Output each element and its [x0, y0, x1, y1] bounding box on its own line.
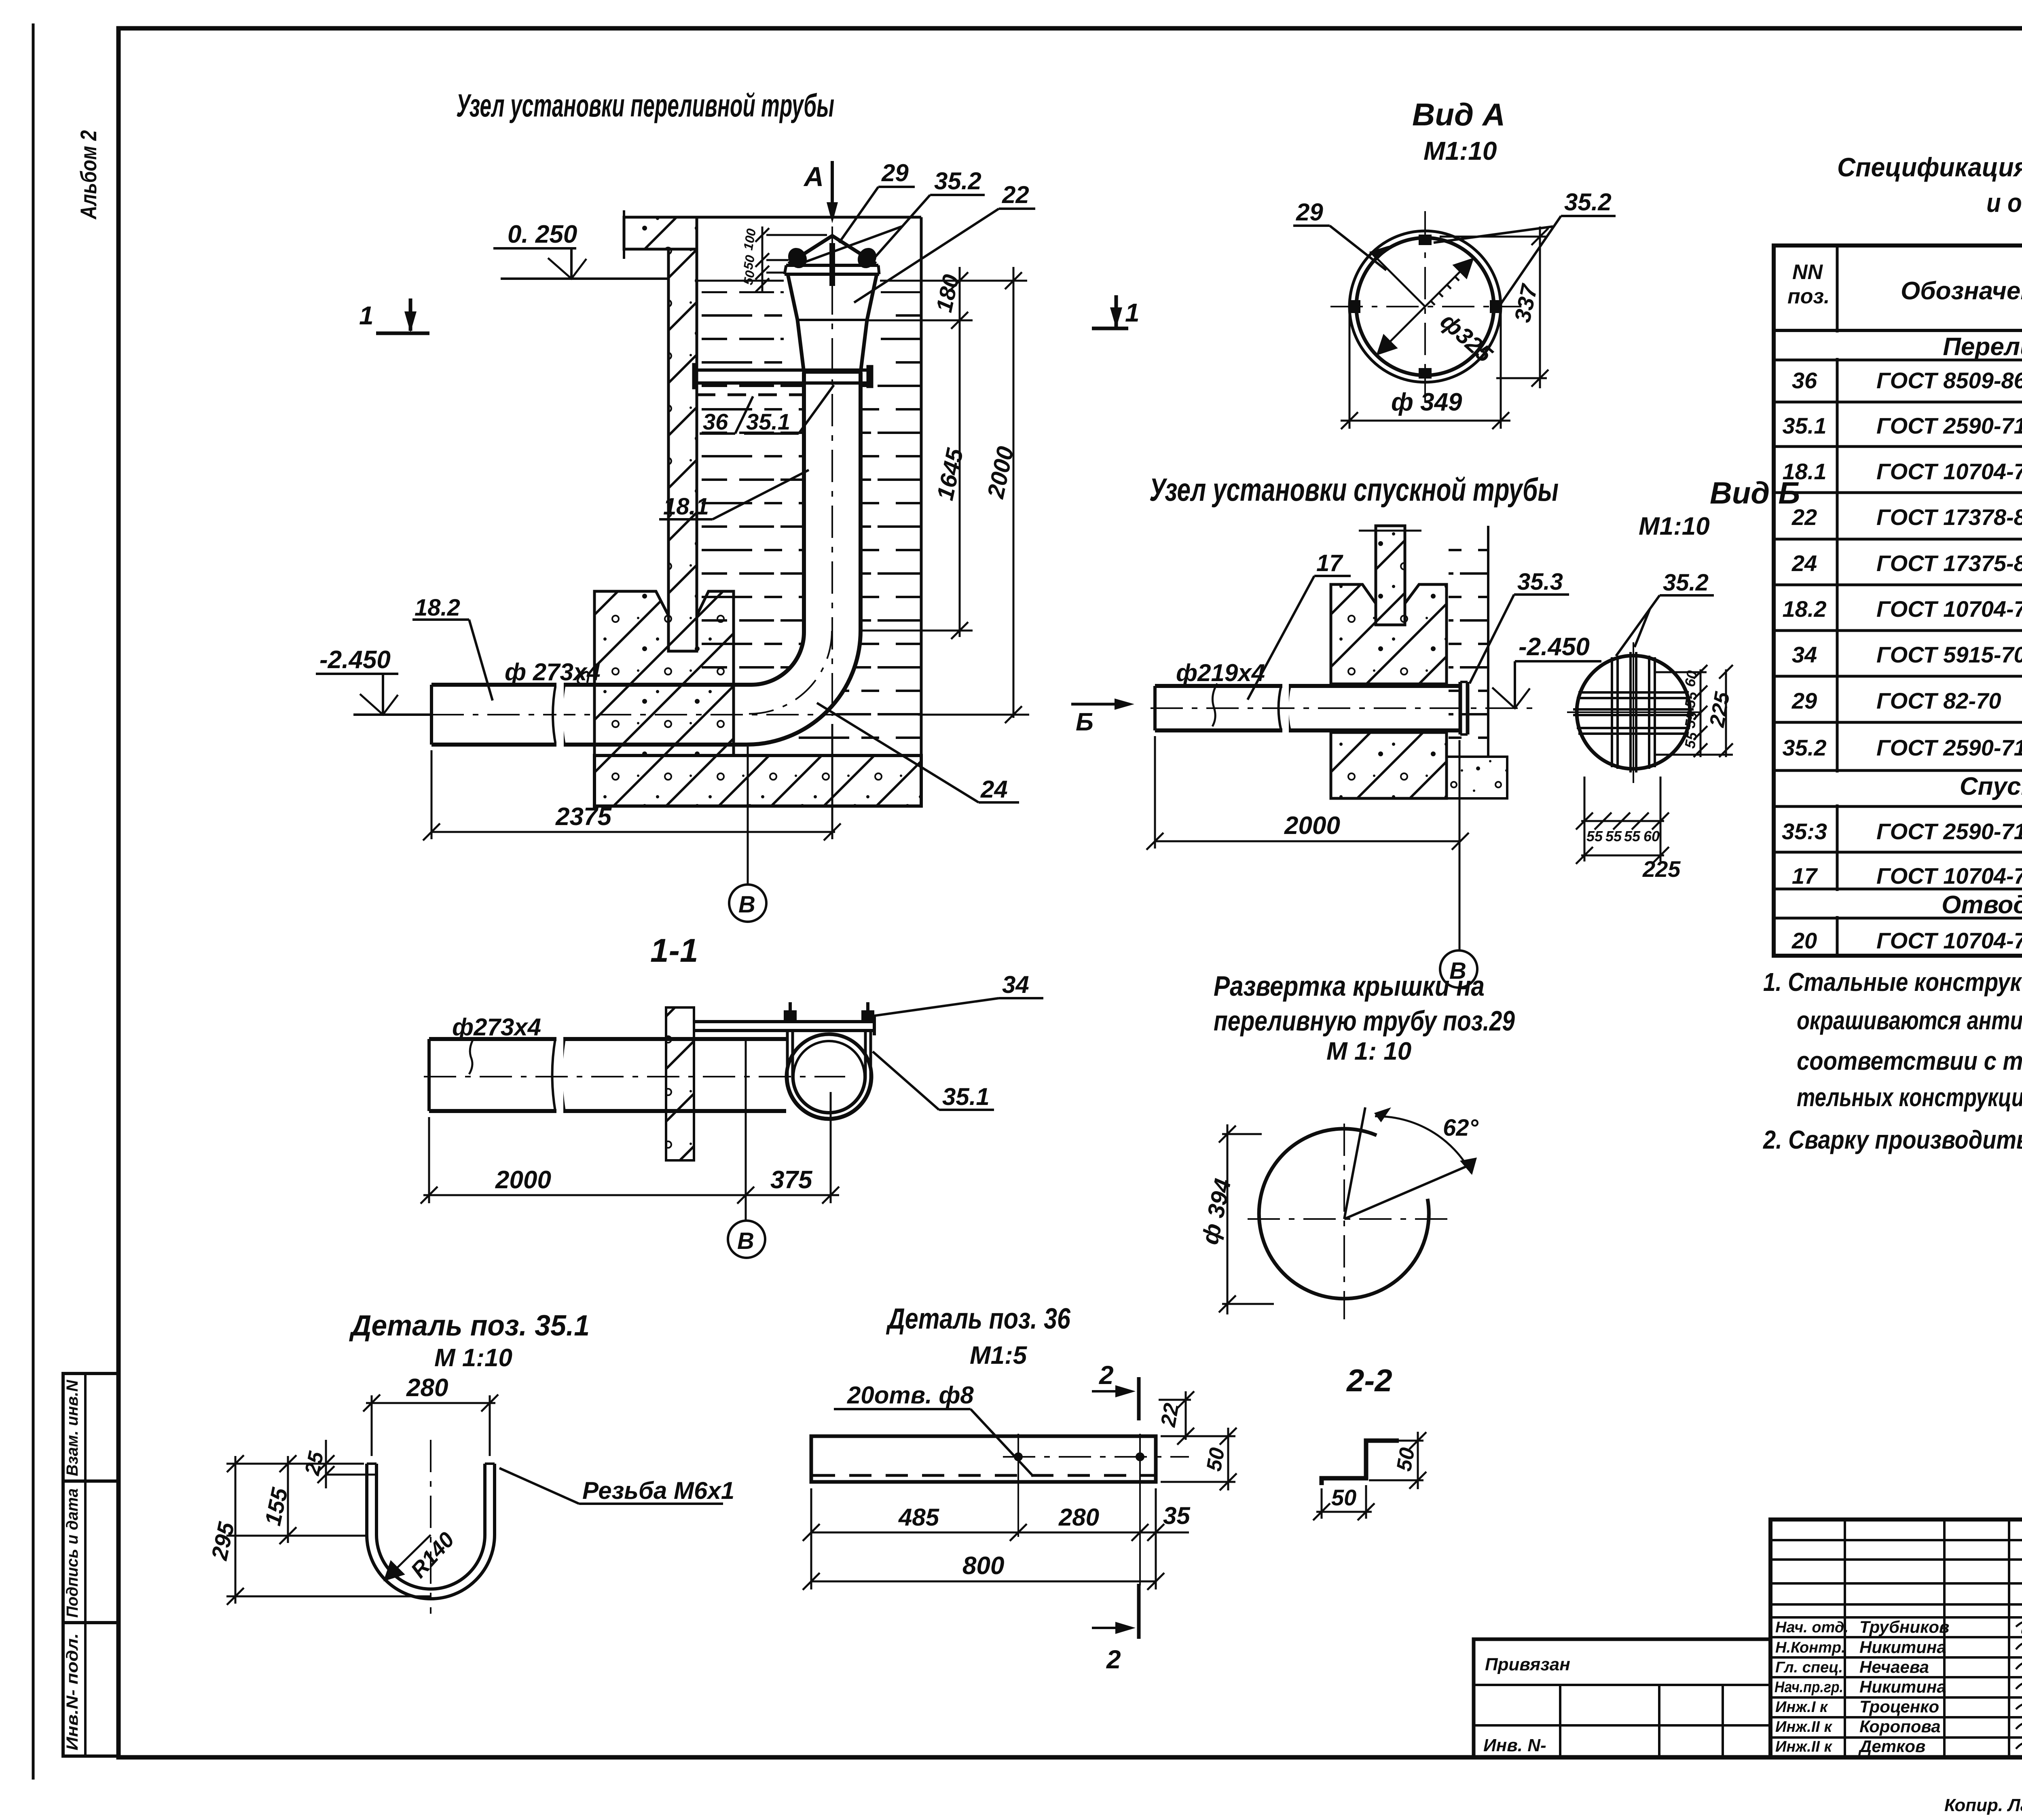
- ring circles ф349/ф325: [1349, 231, 1501, 382]
- signature rows texts: [1775, 1619, 1849, 1755]
- dims 485 / 280 / 35: [803, 1488, 1189, 1589]
- svg-text:-2.450: -2.450: [1519, 633, 1590, 661]
- label 18.1: [659, 470, 809, 520]
- bottom dim 2375: [423, 724, 841, 840]
- foundation slab hatched: [594, 756, 921, 806]
- label 35.2: [1434, 188, 1616, 306]
- diameter arrow ф325: [1378, 259, 1472, 354]
- svg-text:Троценко: Троценко: [1859, 1697, 1939, 1716]
- pipe centerline: [431, 714, 918, 715]
- svg-text:35.1: 35.1: [746, 409, 790, 434]
- pipe centerline: [1151, 707, 1537, 709]
- svg-text:24: 24: [1791, 550, 1817, 576]
- dims 2000 / 375: [421, 1039, 839, 1221]
- table data rows: [1782, 368, 2022, 953]
- basin right section boundary: [920, 217, 923, 758]
- svg-text:тельных конструкций от корр: тельных конструкций от коррозий.": [1797, 1083, 2022, 1112]
- svg-text:1: 1: [359, 301, 374, 330]
- svg-text:2000: 2000: [495, 1166, 551, 1194]
- svg-text:55: 55: [1681, 690, 1701, 709]
- svg-text:М1:5: М1:5: [970, 1342, 1028, 1369]
- water region dashes (basin): [702, 291, 920, 752]
- svg-text:переливную трубу поз.29: переливную трубу поз.29: [1214, 1005, 1515, 1037]
- cap body white mask: [784, 233, 881, 374]
- cap lugs (круг 35.2): [785, 244, 810, 271]
- svg-text:50: 50: [740, 269, 757, 286]
- svg-text:17: 17: [1316, 550, 1343, 576]
- svg-text:Переливная труба: Переливная труба: [1943, 333, 2022, 361]
- svg-text:Узел установки спускной тру: Узел установки спускной трубы: [1149, 472, 1559, 508]
- U-clamp detail: [367, 1464, 495, 1599]
- svg-text:Отводящая труба: Отводящая труба: [1942, 891, 2022, 919]
- svg-text:55: 55: [1605, 828, 1622, 844]
- water level line in basin with extensions to dims: [697, 280, 784, 282]
- svg-text:35.1: 35.1: [942, 1083, 990, 1110]
- svg-text:ГОСТ 17375-83: ГОСТ 17375-83: [1876, 550, 2022, 576]
- svg-text:22: 22: [1157, 1401, 1184, 1429]
- side stamp box: Подпись и дата: [63, 1481, 118, 1623]
- section line A with arrow: [803, 161, 838, 716]
- label 35.3: [1470, 569, 1569, 684]
- svg-text:ГОСТ 82-70: ГОСТ 82-70: [1876, 688, 2001, 713]
- svg-text:ГОСТ 2590-71: ГОСТ 2590-71: [1876, 413, 2022, 438]
- привязан block: [1474, 1639, 1770, 1757]
- svg-text:окрашиваются антикоррозийным: окрашиваются антикоррозийным покрытием в…: [1797, 1006, 2022, 1035]
- dim 337 right: [1440, 226, 1548, 388]
- svg-text:ф219х4: ф219х4: [1176, 659, 1265, 686]
- dim chain right 60/55/55/55 + 225: [1655, 665, 1733, 757]
- grate bars vertical: [1612, 652, 1655, 772]
- svg-text:Нач.пр.гр.: Нач.пр.гр.: [1775, 1679, 1843, 1696]
- svg-text:29: 29: [881, 159, 909, 186]
- svg-text:Гл. спец.: Гл. спец.: [1775, 1659, 1843, 1676]
- svg-text:-2.450: -2.450: [319, 646, 391, 674]
- svg-text:22: 22: [1002, 181, 1029, 208]
- svg-text:ГОСТ 10704-76: ГОСТ 10704-76: [1876, 596, 2022, 622]
- svg-text:Детков: Детков: [1858, 1737, 1925, 1756]
- dim 50 horizontal: [1313, 1485, 1375, 1520]
- svg-text:ГОСТ 5915-70: ГОСТ 5915-70: [1876, 642, 2022, 667]
- svg-text:соответствии с требованиями: соответствии с требованиями СНиП 2.03.11…: [1797, 1046, 2022, 1075]
- svg-text:35.2: 35.2: [1564, 188, 1612, 216]
- top edge line to right boundary: [697, 216, 921, 219]
- dim 800: [803, 1573, 1164, 1590]
- svg-text:20отв. ф8: 20отв. ф8: [847, 1382, 974, 1409]
- dim ф394: [1219, 1124, 1274, 1314]
- svg-text:Копир. Лаврухина: Копир. Лаврухина: [1944, 1795, 2022, 1815]
- side stamp box: Взам. инв. N: [63, 1373, 118, 1481]
- cover development circle with cut sector: [1259, 1129, 1429, 1299]
- horizontal pipe 18.2: [431, 685, 751, 745]
- svg-text:Деталь поз. 35.1: Деталь поз. 35.1: [349, 1310, 590, 1342]
- svg-text:35:3: 35:3: [1782, 819, 1827, 844]
- svg-text:18.2: 18.2: [415, 595, 460, 621]
- svg-text:280: 280: [406, 1374, 448, 1402]
- bar end spikes: [1567, 642, 1700, 783]
- svg-text:35.3: 35.3: [1517, 569, 1563, 595]
- label 35.2 with leaders: [805, 167, 985, 262]
- level mark -2.450: [1492, 661, 1601, 708]
- svg-text:2-2: 2-2: [1346, 1363, 1392, 1398]
- svg-text:Узел установки переливной т: Узел установки переливной трубы: [456, 87, 834, 123]
- pipe section circle: [787, 1034, 871, 1119]
- svg-text:2. Сварку производить эл: 2. Сварку производить электродом типа Э-…: [1763, 1125, 2022, 1154]
- dim 50 vertical: [1369, 1432, 1426, 1489]
- drain pipe 17: [1155, 686, 1459, 730]
- label 24 with leader: [817, 703, 1019, 803]
- column top cut mark: [1359, 530, 1421, 532]
- svg-text:Деталь поз. 36: Деталь поз. 36: [886, 1303, 1071, 1335]
- svg-text:ф 349: ф 349: [1391, 388, 1462, 416]
- svg-text:0. 250: 0. 250: [508, 220, 577, 248]
- outer trim line left: [32, 23, 35, 1780]
- svg-text:60: 60: [1643, 828, 1660, 844]
- cap hat (крышка 29): [785, 236, 879, 274]
- svg-text:34: 34: [1002, 971, 1029, 998]
- svg-text:1: 1: [1125, 298, 1140, 327]
- angle arc 62 with arrows: [1375, 1116, 1471, 1173]
- label 29: [1293, 199, 1386, 270]
- dim chain bottom 55/55/55/60 + 225: [1576, 777, 1669, 864]
- pipe body white mask: [431, 279, 861, 745]
- grate bars horizontal: [1573, 692, 1694, 734]
- svg-text:18.2: 18.2: [1783, 596, 1827, 622]
- pipe centerline: [424, 1076, 845, 1077]
- label Резьба М6х1: [499, 1468, 734, 1504]
- centerline vertical: [430, 1440, 431, 1614]
- crosshair centerlines: [1248, 1124, 1450, 1319]
- section marker 1 (left): [359, 298, 429, 333]
- dim 2000: [1146, 736, 1469, 950]
- svg-text:ГОСТ 17378-83: ГОСТ 17378-83: [1876, 504, 2022, 530]
- spec table header texts: [1787, 260, 2022, 308]
- side stamp box: Инв. N подл.: [63, 1623, 118, 1756]
- svg-text:50: 50: [740, 254, 757, 271]
- svg-text:А: А: [803, 161, 824, 192]
- top slab hatched: [624, 210, 697, 259]
- svg-text:Спускная труба: Спускная труба: [1960, 772, 2022, 800]
- svg-text:ГОСТ 2590-71: ГОСТ 2590-71: [1876, 735, 2022, 760]
- svg-text:50: 50: [1202, 1446, 1229, 1473]
- svg-text:Инж.II к: Инж.II к: [1775, 1738, 1832, 1755]
- svg-text:55: 55: [1586, 828, 1603, 844]
- brace strip 36 with bolts 35.1: [692, 363, 873, 395]
- svg-text:34: 34: [1792, 642, 1817, 667]
- view marker В circle: [728, 1221, 765, 1258]
- level mark 0.250: [493, 248, 668, 279]
- svg-text:35.2: 35.2: [1783, 735, 1827, 760]
- svg-text:280: 280: [1058, 1504, 1099, 1531]
- svg-text:Привязан: Привязан: [1485, 1655, 1570, 1674]
- svg-text:1-1: 1-1: [650, 932, 698, 969]
- svg-text:ГОСТ 10704-76: ГОСТ 10704-76: [1876, 863, 2022, 889]
- strip plate: [811, 1436, 1156, 1482]
- svg-text:Нечаева: Нечаева: [1859, 1657, 1929, 1676]
- svg-text:18.1: 18.1: [663, 493, 709, 520]
- svg-text:Спецификация материалов на пе: Спецификация материалов на переливную, с…: [1837, 152, 2022, 182]
- svg-text:NN: NN: [1792, 260, 1823, 284]
- reducer cone (переход 22): [788, 274, 877, 372]
- view marker Б arrow: [1071, 698, 1134, 736]
- svg-text:1. Стальные конструкции во: 1. Стальные конструкции водопроводного о…: [1763, 967, 2022, 997]
- svg-text:Нач. отд.: Нач. отд.: [1775, 1619, 1849, 1636]
- svg-text:2000: 2000: [1284, 812, 1340, 840]
- top strip (полоса 29): [694, 1017, 874, 1035]
- strip centerline: [1003, 1456, 1189, 1458]
- svg-text:29: 29: [1791, 688, 1817, 713]
- vertical pipe 18.1: [804, 372, 861, 632]
- section header row masks: [1776, 332, 2022, 916]
- dim ф349 bottom: [1341, 311, 1510, 429]
- level mark -2.450: [316, 674, 431, 715]
- svg-text:Никитина: Никитина: [1859, 1638, 1946, 1657]
- svg-text:2: 2: [1099, 1361, 1114, 1390]
- svg-text:Трубников: Трубников: [1859, 1617, 1949, 1636]
- water dashes right of wall: [1449, 534, 1487, 752]
- section marker 2 top: [1092, 1361, 1139, 1420]
- svg-text:Подпись и дата: Подпись и дата: [63, 1488, 81, 1618]
- svg-text:Инв. N-: Инв. N-: [1483, 1735, 1546, 1755]
- svg-text:ГОСТ 10704-76: ГОСТ 10704-76: [1876, 928, 2022, 953]
- gusset tabs 35.2: [1350, 235, 1500, 379]
- svg-text:Обозначение: Обозначение: [1901, 277, 2022, 305]
- svg-text:В: В: [738, 891, 755, 918]
- label 22 with leader: [854, 181, 1035, 303]
- svg-text:17: 17: [1792, 863, 1818, 889]
- grate circle: [1577, 656, 1690, 769]
- svg-text:485: 485: [898, 1504, 940, 1531]
- central stud with nut 34: [829, 243, 835, 286]
- label 18.2: [412, 595, 493, 700]
- wall block above pipe hatched: [1331, 584, 1447, 684]
- right dim 2000: [918, 267, 1029, 723]
- svg-text:Вид А: Вид А: [1412, 97, 1505, 132]
- dim 280 top: [363, 1395, 498, 1456]
- label ф219x4: [1176, 659, 1265, 726]
- svg-text:35: 35: [1163, 1502, 1191, 1529]
- svg-text:Инж.II к: Инж.II к: [1775, 1718, 1832, 1735]
- view A centerlines: [1330, 211, 1521, 403]
- z angle shape: [1322, 1441, 1399, 1485]
- svg-text:ГОСТ 8509-86: ГОСТ 8509-86: [1876, 368, 2022, 393]
- label 35.2: [1616, 569, 1714, 656]
- radius arrow upper-left: [1371, 247, 1425, 307]
- wall anchor block hatched: [594, 591, 734, 756]
- svg-text:поз.: поз.: [1787, 285, 1830, 308]
- side stamp rotated labels: [63, 1380, 81, 1750]
- section marker 2 bottom: [1092, 1584, 1139, 1674]
- svg-text:М 1: 10: М 1: 10: [1326, 1037, 1411, 1065]
- section marker 1 (right): [1092, 295, 1140, 328]
- svg-text:ГОСТ 10704-76: ГОСТ 10704-76: [1876, 459, 2022, 484]
- right foundation dotted: [1447, 757, 1507, 798]
- title block grid: [1770, 1519, 2022, 1757]
- svg-text:50: 50: [1392, 1446, 1419, 1473]
- white gap of pipe break: [556, 683, 564, 747]
- signatures squiggles: [2016, 1619, 2022, 1749]
- svg-text:225: 225: [1642, 856, 1681, 882]
- svg-text:В: В: [737, 1228, 754, 1254]
- holes 20отв ф8: [1014, 1434, 1144, 1585]
- upper wall column hatched: [1376, 526, 1405, 625]
- basin boundary line: [1487, 526, 1489, 757]
- label ф273x4: [505, 658, 601, 686]
- dims 295 / 155 / 25 left: [226, 1440, 431, 1605]
- pipe ф273x4 horizontal: [429, 1039, 786, 1111]
- svg-text:М1:10: М1:10: [1639, 512, 1710, 540]
- svg-text:2: 2: [1106, 1645, 1121, 1674]
- svg-text:2375: 2375: [555, 803, 612, 831]
- svg-text:Вид Б: Вид Б: [1710, 476, 1800, 510]
- svg-text:и отводящую трубы: и отводящую трубы: [1986, 188, 2022, 218]
- labels 36 and 35.1: [700, 385, 834, 434]
- svg-text:Никитина: Никитина: [1859, 1677, 1946, 1696]
- pipe end flange 35.3: [1460, 682, 1468, 734]
- svg-text:29: 29: [1296, 199, 1323, 226]
- label ф273x4: [452, 1014, 541, 1074]
- svg-text:Альбом 2: Альбом 2: [76, 130, 101, 220]
- svg-text:62°: 62°: [1443, 1115, 1479, 1141]
- sector radius lines: [1344, 1107, 1472, 1219]
- wall strip hatched: [666, 1007, 694, 1160]
- dim 50 right: [1161, 1428, 1237, 1490]
- view marker В (bottom of elbow): [729, 747, 766, 922]
- svg-text:50: 50: [1331, 1485, 1356, 1510]
- elbow 24: [747, 631, 861, 745]
- label 29 with leader: [839, 159, 915, 243]
- svg-text:35.1: 35.1: [1783, 413, 1827, 438]
- svg-text:36: 36: [703, 409, 728, 434]
- svg-text:35.2: 35.2: [934, 167, 981, 195]
- svg-text:М1:10: М1:10: [1423, 136, 1497, 165]
- svg-text:35.2: 35.2: [1663, 569, 1709, 596]
- svg-text:55: 55: [1681, 710, 1701, 730]
- label 34: [873, 971, 1043, 1016]
- svg-text:Н.Контр.: Н.Контр.: [1775, 1639, 1846, 1656]
- svg-text:Взам. инв.N: Взам. инв.N: [63, 1380, 81, 1476]
- svg-text:55: 55: [1624, 828, 1641, 844]
- svg-text:55: 55: [1681, 730, 1701, 750]
- R140 radius arrow: [385, 1535, 431, 1580]
- section header rows: [1942, 333, 2022, 919]
- svg-text:24: 24: [980, 776, 1008, 803]
- svg-text:800: 800: [962, 1552, 1004, 1580]
- U-clamp 35.1: [787, 1031, 871, 1118]
- svg-text:Б: Б: [1076, 708, 1093, 736]
- svg-text:20: 20: [1791, 928, 1817, 953]
- svg-text:ф273х4: ф273х4: [452, 1014, 541, 1041]
- svg-text:Резьба М6х1: Резьба М6х1: [582, 1477, 734, 1504]
- svg-text:Инж.I к: Инж.I к: [1775, 1699, 1828, 1716]
- spec table grid: [1774, 28, 2022, 956]
- 2-2 z-angle section: [1313, 1363, 1426, 1520]
- label 35.1: [873, 1052, 994, 1110]
- svg-text:ГОСТ 2590-71: ГОСТ 2590-71: [1876, 819, 2022, 844]
- svg-text:Инв.N- подл.: Инв.N- подл.: [63, 1633, 81, 1750]
- svg-text:375: 375: [770, 1166, 813, 1194]
- view marker В circle: [1440, 950, 1477, 988]
- label 20отв. ф8: [834, 1382, 1033, 1476]
- wall block below pipe hatched: [1331, 732, 1447, 798]
- dim 22 right: [1159, 1391, 1194, 1445]
- basin wall hatched: [668, 249, 697, 651]
- svg-text:М 1:10: М 1:10: [434, 1344, 512, 1372]
- svg-text:Развертка крышки на: Развертка крышки на: [1214, 970, 1485, 1002]
- svg-text:Коропова: Коропова: [1859, 1717, 1941, 1736]
- clamp nuts 34: [784, 1002, 874, 1022]
- svg-text:60: 60: [1681, 669, 1701, 688]
- right dim chain 180 / 1645: [861, 267, 973, 639]
- dim chain 100/50/50 left of cap: [755, 226, 827, 292]
- label 17: [1248, 550, 1351, 700]
- svg-text:36: 36: [1792, 368, 1817, 393]
